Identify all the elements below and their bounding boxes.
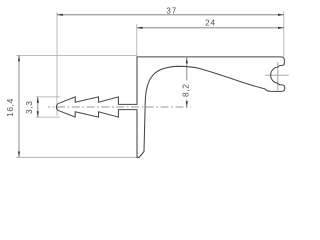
svg-text:24: 24 xyxy=(205,17,216,27)
svg-text:3,3: 3,3 xyxy=(24,100,34,114)
svg-text:37: 37 xyxy=(166,5,177,15)
svg-text:8,2: 8,2 xyxy=(181,83,191,97)
svg-text:16,4: 16,4 xyxy=(5,98,15,117)
